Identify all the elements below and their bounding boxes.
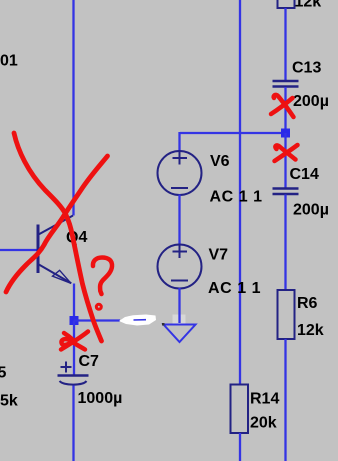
node: emitter junction (70, 316, 79, 325)
wire: V7 down to ground (178, 288, 180, 323)
ground (164, 325, 196, 343)
annotation: red X below C13 (274, 95, 294, 117)
svg-text:C7: C7 (79, 353, 100, 370)
annotation: red question mark dot (96, 304, 101, 309)
wire: below C7 to bottom edge (72, 386, 74, 461)
dark speck at ground corner (162, 323, 165, 326)
annotation: red question mark (93, 258, 112, 295)
svg-text:12k: 12k (297, 322, 324, 339)
svg-text:C13: C13 (292, 60, 321, 77)
voltage source V7 (158, 244, 202, 289)
wire: junction down to C7 (73, 321, 75, 376)
annotation: white-out halo behind ground stub (173, 315, 186, 325)
annotation: white-out blob over erased wire (119, 315, 156, 326)
resistor R6 (278, 290, 295, 339)
svg-text:R14: R14 (250, 391, 279, 408)
svg-text:R6: R6 (297, 295, 318, 312)
capacitor C13 (273, 81, 299, 87)
svg-text:200µ: 200µ (293, 202, 329, 219)
svg-text:V6: V6 (210, 153, 230, 170)
wire: below R14 to bottom edge (239, 433, 241, 461)
svg-text:AC 1 1: AC 1 1 (208, 280, 261, 297)
wire: C13 down to junction (284, 87, 286, 133)
svg-text:200µ: 200µ (293, 93, 329, 110)
wire: junction down to C14 (284, 133, 286, 189)
resistor R14 (231, 385, 249, 434)
transistor Q4 (38, 216, 73, 284)
voltage source V6 (158, 151, 202, 196)
annotation: red X between junction and C14 (275, 145, 298, 161)
wire: middle column from top edge to R14 (239, 0, 241, 385)
annotation: red cross over transistor, stroke 2 (6, 156, 108, 292)
svg-text:5k: 5k (0, 393, 18, 410)
wire remnant inside white-out (134, 319, 147, 321)
wire: junction to the right (partly erased) (74, 319, 120, 321)
annotation: red X over wire above C7 (61, 333, 85, 350)
svg-text:AC 1 1: AC 1 1 (210, 189, 263, 206)
wire: horizontal from V6 to junction (180, 132, 286, 134)
wire: below R6 to bottom edge (284, 339, 286, 461)
resistor at top edge (partial) (278, 0, 295, 8)
wire: collector column from top edge (72, 0, 74, 216)
svg-text:12k: 12k (295, 0, 322, 11)
wire: V6 to V7 (178, 195, 180, 246)
wire: base lead from left edge (0, 249, 37, 251)
svg-text:C14: C14 (290, 166, 319, 183)
wire: C14 down to R6 (284, 195, 286, 291)
capacitor C14 (273, 189, 299, 195)
wire: emitter down to junction (73, 284, 75, 321)
svg-text:V7: V7 (209, 247, 229, 264)
capacitor C7 (58, 362, 89, 385)
svg-text:5: 5 (0, 365, 7, 382)
node: input junction (281, 129, 290, 138)
svg-text:01: 01 (0, 53, 18, 70)
svg-text:1000µ: 1000µ (78, 390, 123, 407)
wire: top resistor down to C13 (284, 8, 286, 81)
wire: V6 top stub (178, 132, 180, 152)
annotation: red cross over transistor, stroke 1 (14, 133, 102, 341)
svg-text:20k: 20k (250, 415, 277, 432)
